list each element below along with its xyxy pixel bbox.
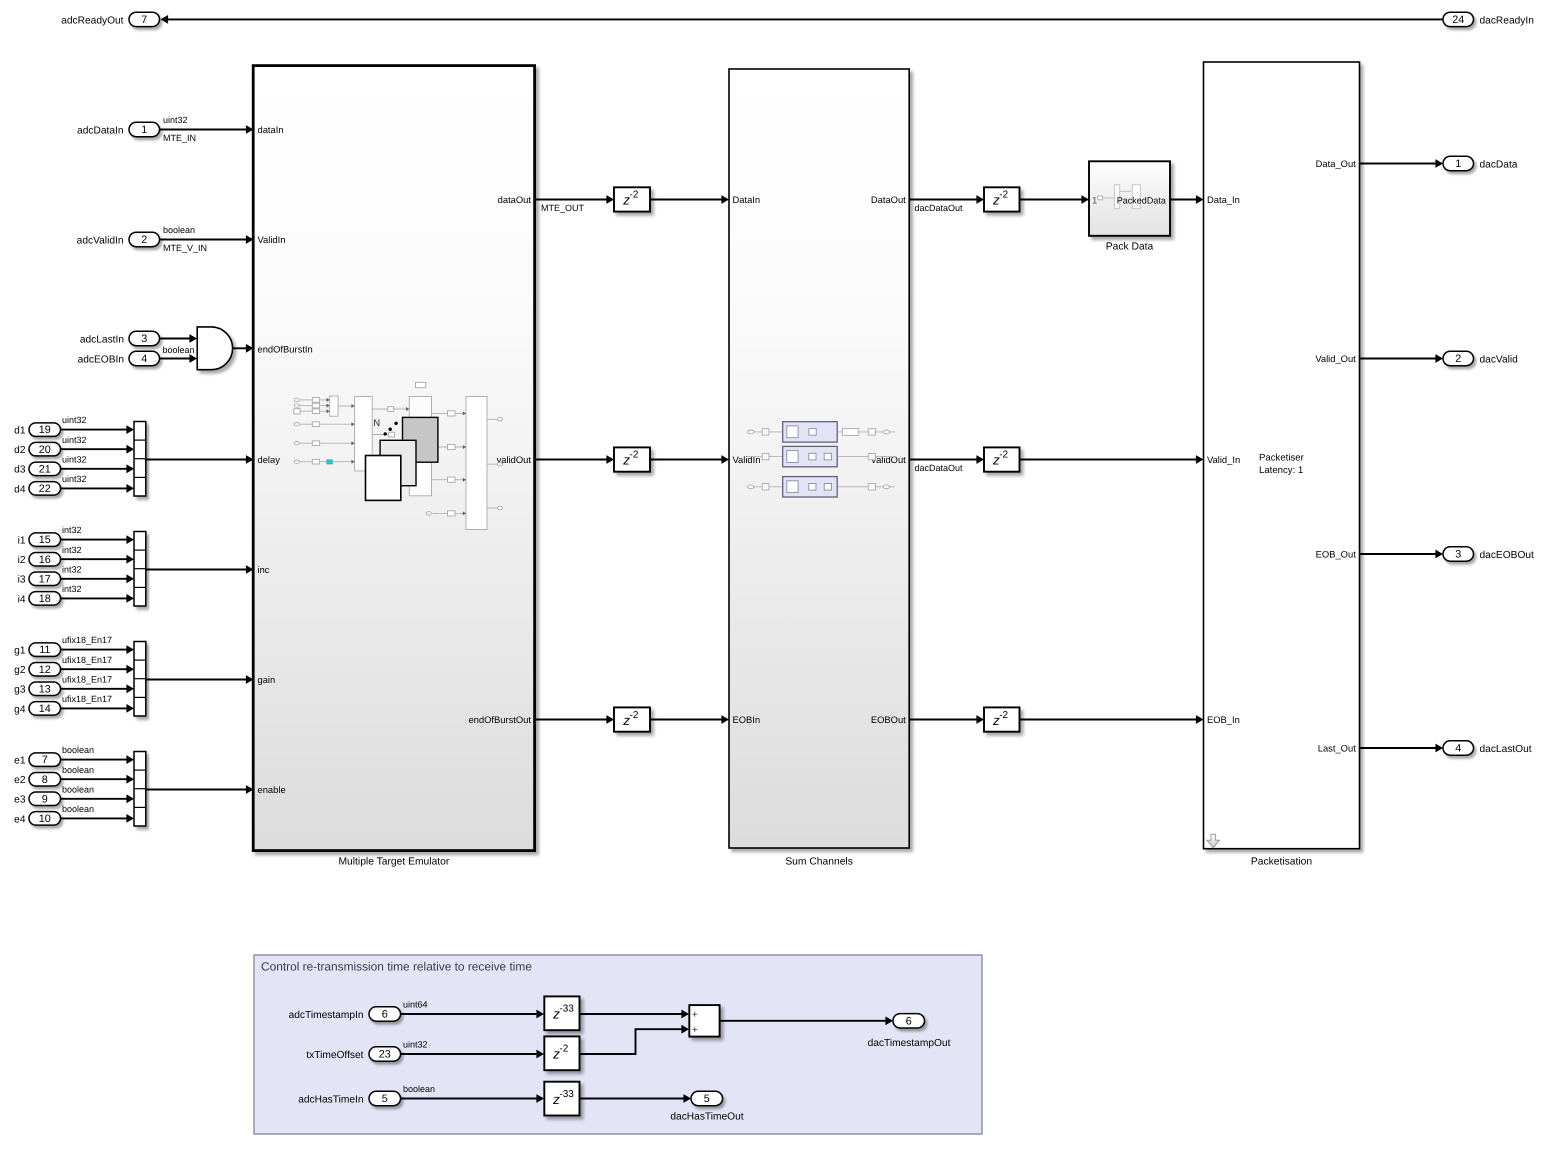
svg-text:2: 2 (1455, 353, 1461, 365)
svg-text:-2: -2 (630, 450, 639, 461)
svg-text:MTE_V_IN: MTE_V_IN (163, 243, 207, 253)
svg-text:20: 20 (39, 444, 51, 456)
svg-text:18: 18 (39, 593, 51, 605)
wire Z8 to sum (bend) (580, 1029, 688, 1054)
svg-text:MTE_IN: MTE_IN (163, 133, 196, 143)
svg-text:2: 2 (141, 234, 147, 246)
svg-text:24: 24 (1452, 14, 1464, 26)
delay Z6 z^-2 (984, 707, 1020, 731)
svg-text:EOB_Out: EOB_Out (1316, 549, 1357, 560)
svg-text:7: 7 (42, 754, 48, 766)
wire i3 to mux (61, 578, 133, 580)
svg-text:boolean: boolean (62, 745, 94, 755)
wire DataOut to Z2 (dacDataOut) (909, 199, 982, 201)
svg-text:boolean: boolean (163, 225, 195, 235)
svg-text:d1: d1 (14, 426, 26, 437)
svg-text:adcEOBIn: adcEOBIn (78, 354, 124, 365)
svg-text:dacLastOut: dacLastOut (1480, 744, 1532, 755)
inport dacReadyIn (24) (1443, 12, 1474, 26)
svg-text:Multiple Target Emulator: Multiple Target Emulator (338, 856, 449, 867)
delay Z2 z^-2 (984, 187, 1020, 211)
svg-text:21: 21 (39, 463, 51, 475)
svg-text:11: 11 (39, 644, 50, 656)
svg-text:g1: g1 (14, 646, 26, 657)
svg-text:i3: i3 (18, 575, 26, 586)
svg-text:4: 4 (141, 353, 147, 365)
svg-text:d4: d4 (14, 484, 26, 495)
wire endOfBurstOut to Z5 (535, 719, 613, 721)
wire g1 to mux (61, 649, 133, 651)
wire validOut to Z3 (535, 459, 613, 461)
wire i4 to mux (61, 597, 133, 599)
Sum Channels preview contents (747, 431, 895, 433)
svg-text:ufix18_En17: ufix18_En17 (62, 674, 112, 684)
svg-text:int32: int32 (62, 564, 82, 574)
wire adcTimestampIn to Z7 (401, 1013, 543, 1015)
logic gate AND (adcLastIn,adcEOBIn) (197, 327, 232, 370)
wire g2 to mux (61, 668, 133, 670)
svg-text:dataOut: dataOut (498, 194, 532, 205)
wire dacReadyIn to adcReadyOut (167, 18, 1444, 20)
svg-text:-2: -2 (999, 450, 1008, 461)
wire sum to dacTimestampOut (720, 1020, 892, 1022)
svg-text:Pack Data: Pack Data (1106, 241, 1154, 252)
svg-text:N: N (373, 418, 380, 429)
wire dacEOBOut (1360, 553, 1442, 555)
wire i1 to mux (61, 539, 133, 541)
svg-text:dacDataOut: dacDataOut (915, 203, 964, 213)
wire g3 to mux (61, 688, 133, 690)
wire Pack Data to Data_In (1170, 199, 1202, 201)
outport dacData (1) (1443, 156, 1474, 170)
wire Z6 to EOB_In (1020, 719, 1203, 721)
svg-text:g3: g3 (14, 685, 26, 696)
svg-text:i2: i2 (18, 555, 26, 566)
wire Z9 to dacHasTimeOut (580, 1098, 690, 1100)
svg-text:endOfBurstOut: endOfBurstOut (468, 714, 531, 725)
wire txTimeOffset to Z8 (401, 1053, 543, 1055)
delay Z9 z^-33 (544, 1082, 579, 1116)
svg-text:txTimeOffset: txTimeOffset (306, 1050, 363, 1061)
delay Z4 z^-2 (984, 447, 1020, 471)
svg-text:EOB_In: EOB_In (1207, 714, 1240, 725)
svg-text:boolean: boolean (163, 345, 195, 355)
svg-text:int32: int32 (62, 545, 82, 555)
svg-text:dacValid: dacValid (1480, 354, 1519, 365)
svg-text:dacTimestampOut: dacTimestampOut (868, 1038, 951, 1049)
svg-text:6: 6 (906, 1015, 912, 1027)
outport dacEOBOut (3) (1443, 547, 1474, 561)
svg-text:-2: -2 (630, 190, 639, 201)
svg-text:DataIn: DataIn (733, 194, 761, 205)
wire Z3 to ValidIn (650, 459, 728, 461)
svg-text:e1: e1 (14, 756, 26, 767)
outport dacLastOut (4) (1443, 741, 1474, 755)
svg-text:ufix18_En17: ufix18_En17 (62, 655, 112, 665)
svg-text:inc: inc (258, 564, 270, 575)
svg-text:gain: gain (258, 674, 276, 685)
svg-text:4: 4 (1455, 743, 1461, 755)
svg-text:g4: g4 (14, 704, 26, 715)
wire Z4 to Valid_In (1020, 459, 1203, 461)
svg-text:23: 23 (379, 1049, 391, 1061)
svg-text:Valid_Out: Valid_Out (1315, 353, 1356, 364)
svg-text:ufix18_En17: ufix18_En17 (62, 694, 112, 704)
svg-text:uint64: uint64 (403, 1000, 428, 1010)
svg-text:-2: -2 (999, 710, 1008, 721)
outport dacHasTimeOut (5) (691, 1091, 723, 1105)
svg-text:3: 3 (141, 333, 147, 345)
svg-text:EOBOut: EOBOut (871, 714, 906, 725)
svg-text:int32: int32 (62, 584, 82, 594)
sum block Add (689, 1005, 719, 1037)
svg-text:g2: g2 (14, 665, 26, 676)
svg-text:delay: delay (258, 454, 281, 465)
svg-text:adcHasTimeIn: adcHasTimeIn (298, 1094, 363, 1105)
delay Z8 z^-2 (544, 1036, 579, 1070)
svg-text:uint32: uint32 (62, 454, 87, 464)
wire e3 to mux (61, 798, 133, 800)
wire adcDataIn to dataIn (160, 129, 253, 131)
wire dataOut to delay Z1 (535, 199, 613, 201)
svg-text:enable: enable (258, 784, 286, 795)
svg-text:Sum Channels: Sum Channels (785, 856, 853, 867)
svg-text:PackedData: PackedData (1117, 195, 1166, 205)
svg-text:3: 3 (1455, 549, 1461, 561)
wire EOBOut to Z6 (909, 719, 982, 721)
svg-text:ufix18_En17: ufix18_En17 (62, 635, 112, 645)
mux concat i1-i4 (134, 532, 146, 607)
svg-text:adcReadyOut: adcReadyOut (61, 15, 123, 26)
svg-text:15: 15 (39, 534, 51, 546)
svg-text:adcDataIn: adcDataIn (77, 125, 123, 136)
wire e4 to mux (61, 817, 133, 819)
wire g4 to mux (61, 707, 133, 709)
svg-text:dacReadyIn: dacReadyIn (1480, 15, 1534, 26)
svg-text:uint32: uint32 (62, 474, 87, 484)
mux concat d1-d4 (134, 422, 146, 497)
svg-text:dacHasTimeOut: dacHasTimeOut (670, 1111, 743, 1122)
mux concat e1-e4 (134, 752, 146, 827)
outport dacTimestampOut (6) (893, 1014, 925, 1028)
svg-text:ValidIn: ValidIn (258, 234, 286, 245)
svg-text:e2: e2 (14, 775, 26, 786)
Packetisation drop-down arrow icon (1207, 834, 1220, 847)
svg-text:d2: d2 (14, 445, 26, 456)
delay Z5 z^-2 (614, 707, 650, 731)
wire i2 to mux (61, 558, 133, 560)
svg-text:7: 7 (141, 14, 147, 26)
wire e1 to mux (61, 759, 133, 761)
svg-text:i1: i1 (18, 536, 26, 547)
delay Z3 z^-2 (614, 447, 650, 471)
svg-text:1: 1 (1455, 158, 1461, 170)
wire dacData (1360, 163, 1442, 165)
svg-text:16: 16 (39, 554, 51, 566)
svg-text:Control re-transmission time r: Control re-transmission time relative to… (261, 960, 532, 974)
block Pack Data (1089, 161, 1170, 236)
svg-text:d3: d3 (14, 465, 26, 476)
svg-text:14: 14 (39, 703, 51, 715)
svg-text:5: 5 (382, 1093, 388, 1105)
svg-text:adcTimestampIn: adcTimestampIn (289, 1010, 364, 1021)
wire Z7 to sum (580, 1013, 688, 1015)
svg-text:int32: int32 (62, 525, 82, 535)
svg-text:-33: -33 (559, 1004, 574, 1015)
svg-text:6: 6 (382, 1009, 388, 1021)
wire Z2 to Pack Data (1020, 199, 1088, 201)
wire dacValid (1360, 358, 1442, 360)
svg-text:MTE_OUT: MTE_OUT (541, 203, 585, 213)
outport dacValid (2) (1443, 351, 1474, 365)
svg-text:DataOut: DataOut (871, 194, 906, 205)
svg-text:adcValidIn: adcValidIn (77, 235, 124, 246)
svg-text:1: 1 (1092, 195, 1097, 206)
svg-text:-2: -2 (559, 1044, 568, 1055)
MTE preview contents (299, 400, 497, 514)
block Packetisation (1204, 62, 1360, 849)
svg-text:i4: i4 (18, 594, 26, 605)
wire gate to endOfBurstIn (233, 347, 252, 349)
mux concat g1-g4 (134, 642, 146, 717)
svg-text:uint32: uint32 (62, 415, 87, 425)
wire e2 to mux (61, 778, 133, 780)
svg-text:12: 12 (39, 664, 51, 676)
svg-text:-2: -2 (630, 710, 639, 721)
delay Z7 z^-33 (544, 996, 579, 1030)
svg-text:dacData: dacData (1480, 159, 1518, 170)
svg-text:1: 1 (141, 124, 147, 136)
svg-text:uint32: uint32 (403, 1040, 428, 1050)
block Multiple Target Emulator (253, 66, 534, 851)
svg-text:+: + (692, 1010, 698, 1021)
svg-text:dacEOBOut: dacEOBOut (1480, 550, 1535, 561)
block Sum Channels (729, 69, 909, 848)
wire d4 to mux (61, 487, 133, 489)
wire mux to MTE (146, 459, 252, 461)
svg-text:dataIn: dataIn (258, 124, 284, 135)
svg-text:+: + (692, 1025, 698, 1036)
svg-text:5: 5 (704, 1093, 710, 1105)
wire ValidOut to Z4 (dacDataOut) (909, 459, 982, 461)
wire Z5 to EOBIn (650, 719, 728, 721)
svg-text:10: 10 (39, 813, 51, 825)
svg-text:-2: -2 (999, 190, 1008, 201)
svg-text:-33: -33 (559, 1089, 574, 1100)
annotation area Control re-transmission (254, 955, 982, 1134)
svg-text:Last_Out: Last_Out (1318, 743, 1356, 754)
wire adcHasTimeIn to Z9 (401, 1098, 543, 1100)
svg-text:19: 19 (39, 424, 51, 436)
svg-text:e4: e4 (14, 814, 26, 825)
svg-text:17: 17 (39, 573, 51, 585)
svg-text:e3: e3 (14, 795, 26, 806)
svg-text:8: 8 (42, 774, 48, 786)
wire mux to MTE (146, 679, 252, 681)
svg-text:Data_Out: Data_Out (1316, 158, 1357, 169)
wire mux to MTE (146, 789, 252, 791)
wire adcLastIn to gate (160, 338, 196, 340)
wire mux to MTE (146, 569, 252, 571)
wire dacLastOut (1360, 747, 1442, 749)
wire adcValidIn to ValidIn (160, 239, 253, 241)
svg-text:boolean: boolean (62, 765, 94, 775)
svg-text:adcLastIn: adcLastIn (80, 334, 124, 345)
svg-text:uint32: uint32 (62, 435, 87, 445)
svg-text:endOfBurstIn: endOfBurstIn (258, 344, 313, 355)
delay Z1 z^-2 (614, 187, 650, 211)
svg-text:EOBIn: EOBIn (733, 714, 761, 725)
svg-text:22: 22 (39, 483, 51, 495)
svg-text:boolean: boolean (62, 784, 94, 794)
svg-text:Latency: 1: Latency: 1 (1259, 465, 1303, 476)
svg-text:Packetiser: Packetiser (1259, 452, 1305, 463)
svg-text:uint32: uint32 (163, 115, 188, 125)
svg-text:Packetisation: Packetisation (1251, 856, 1313, 867)
svg-text:ValidIn: ValidIn (733, 454, 761, 465)
wire d3 to mux (61, 468, 133, 470)
wire adcEOBIn to gate (160, 358, 196, 360)
svg-text:9: 9 (42, 793, 48, 805)
svg-text:Data_In: Data_In (1207, 194, 1240, 205)
wire d2 to mux (61, 448, 133, 450)
wire d1 to mux (61, 429, 133, 431)
svg-text:boolean: boolean (62, 804, 94, 814)
svg-text:Valid_In: Valid_In (1207, 454, 1240, 465)
svg-text:boolean: boolean (403, 1084, 435, 1094)
svg-text:dacDataOut: dacDataOut (915, 463, 964, 473)
svg-text:13: 13 (39, 683, 51, 695)
wire Z1 to DataIn (650, 199, 728, 201)
